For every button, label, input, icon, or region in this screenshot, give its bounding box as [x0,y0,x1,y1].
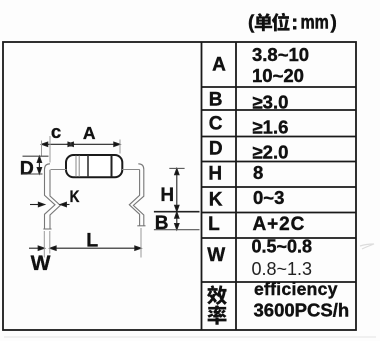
table column divider [235,42,237,330]
dimension D bottom tick [23,173,43,175]
body stripe 1 [75,156,77,177]
svg-text:mm: mm [301,11,329,33]
body stripe 2 [78,156,80,177]
left lead outer edge with bend and kink [45,164,56,229]
body stripe 4 (cathode band) [111,155,113,177]
table row line 5 [202,186,357,188]
extension line lead edge [49,136,51,163]
table label 效 [207,285,227,305]
svg-text:10~20: 10~20 [252,65,304,86]
svg-text:c: c [51,121,61,142]
svg-text:efficiency: efficiency [254,279,338,299]
svg-text:3.8~10: 3.8~10 [252,44,309,65]
header unit label (单位 : mm) [248,11,337,33]
body stripe 3 [87,155,89,177]
dimension W arrows [29,246,56,250]
svg-text:0.5~0.8: 0.5~0.8 [252,237,313,257]
svg-text:W: W [31,252,51,275]
svg-text:A: A [212,54,226,75]
extension line right lead [140,228,142,258]
svg-text:0.8~1.3: 0.8~1.3 [252,259,313,279]
svg-text:B: B [155,213,169,234]
left lead inner edge with kink [50,170,60,229]
svg-text:A+2C: A+2C [253,214,306,235]
svg-text:0~3: 0~3 [253,187,284,208]
H/B divider tick [154,211,200,213]
faint scan artifact [360,244,374,249]
dimension B line with arrows [175,212,179,230]
dimension K arrows [30,202,70,206]
table row line 4 [202,161,357,163]
svg-text:≥2.0: ≥2.0 [253,142,289,163]
extension line at c left [41,141,43,157]
table left border [201,42,203,330]
component body [66,155,122,177]
table row line 8 [202,281,357,283]
svg-text:H: H [208,163,222,184]
right lead outer edge with bend and kink [133,164,143,226]
table row line 3 [202,136,357,138]
svg-text:D: D [209,138,223,159]
table row line 2 [202,109,357,111]
table row line 1 [202,86,357,88]
svg-text:8: 8 [253,162,263,183]
svg-text:B: B [209,90,223,111]
dimension line c and A [42,142,121,146]
svg-text:K: K [209,189,223,210]
svg-text:W: W [207,245,225,266]
svg-text:L: L [208,214,220,235]
svg-text:C: C [209,114,223,135]
outer frame box [3,42,356,330]
right lead inner edge with kink [129,170,139,226]
left lead bottom tick [43,228,51,230]
extension line left lead left [43,231,45,258]
left lead wire to body [51,169,67,171]
svg-text:H: H [160,185,174,206]
right lead bottom tick [137,225,145,227]
svg-text:): ) [331,12,337,33]
dimension L line with arrows [56,246,141,250]
right lead wire to body [122,169,140,171]
dimension D top tick [23,155,49,157]
svg-text:K: K [70,188,80,207]
table row line 6 [202,212,357,214]
dimension H line with arrows [175,169,179,212]
svg-text:≥1.6: ≥1.6 [253,117,289,138]
svg-text:≥3.0: ≥3.0 [253,91,289,112]
svg-text:(: ( [248,12,255,33]
table row line 7 [202,237,357,239]
svg-text:3600PCS/h: 3600PCS/h [254,300,350,321]
extension line left lead right [49,231,51,254]
table label 率 [207,305,226,325]
B bottom tick [154,229,200,231]
faint scan smudge at bottom [4,336,376,338]
svg-text:A: A [83,123,96,143]
extension line body right [119,140,121,154]
dimension D vertical line with arrows [37,156,41,174]
H top tick [169,167,184,169]
svg-text:D: D [20,157,34,179]
